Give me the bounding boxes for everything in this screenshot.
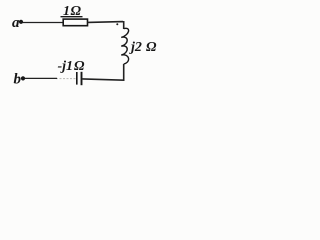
capacitor left plate [76,72,78,85]
resistor R box [63,19,87,26]
wire resistor to top-right corner [88,21,124,29]
capacitor right plate [81,72,83,85]
svg-text:-j1Ω: -j1Ω [58,59,86,74]
scan speck near corner [116,23,118,25]
node b terminal dot [21,76,25,80]
faint faded wire segment to capacitor [56,78,76,80]
underline under 1 ohm label [61,16,83,18]
svg-text:b: b [14,71,22,87]
svg-text:a: a [12,15,20,31]
wire coil to bottom-right corner [83,64,124,80]
node a terminal dot [19,20,23,24]
wire b to capacitor [25,77,58,79]
wire a to resistor [23,22,64,24]
inductor L coil [121,28,128,64]
